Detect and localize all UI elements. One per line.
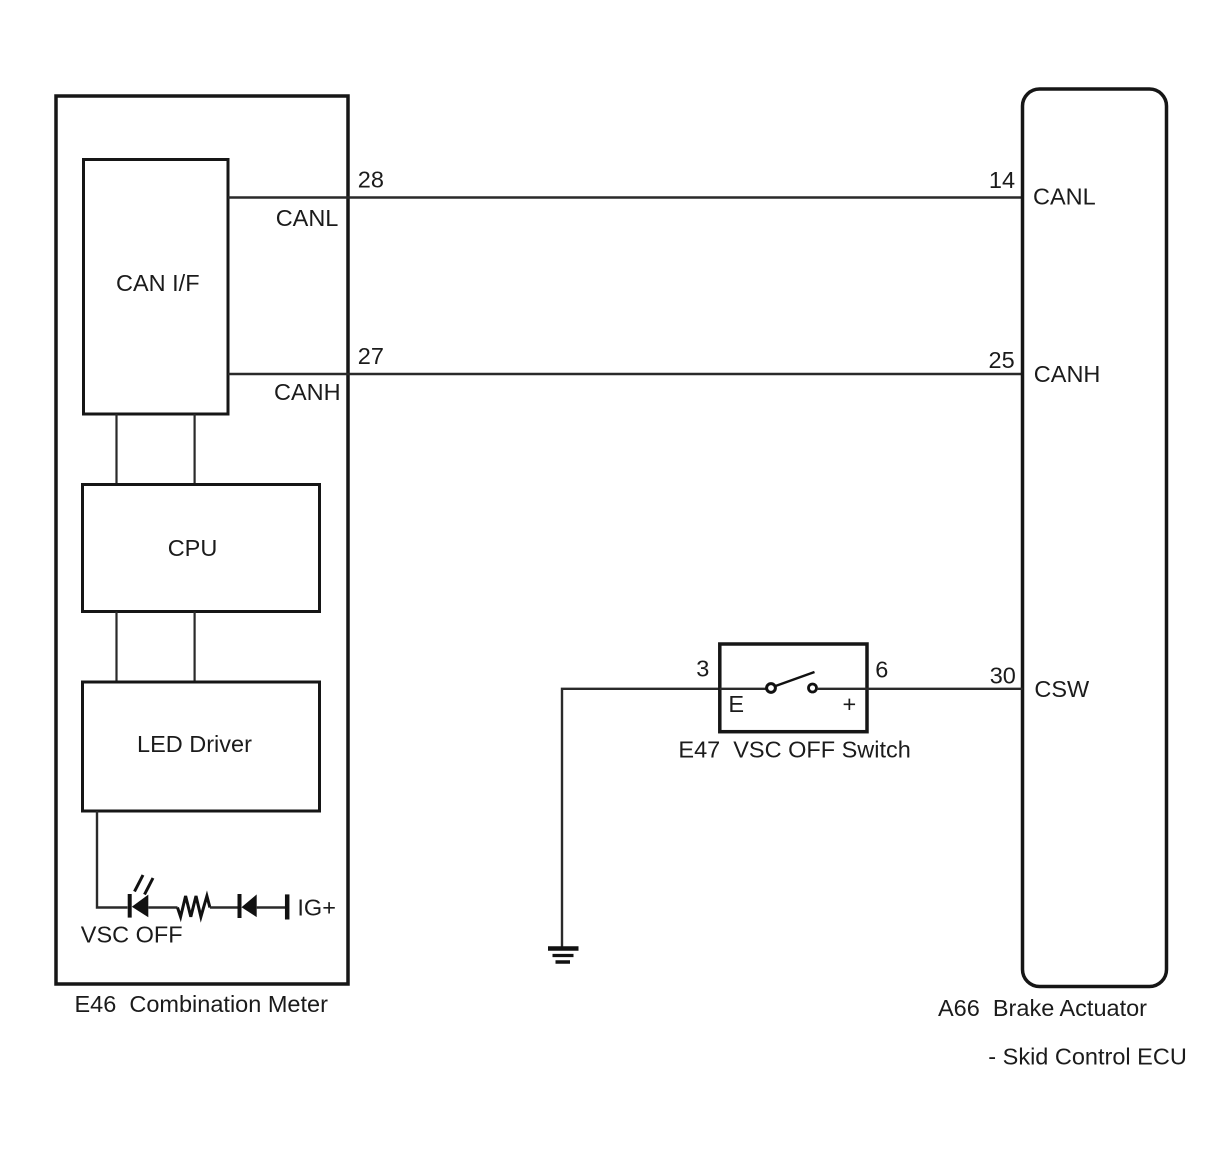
svg-text:14: 14 — [989, 167, 1015, 193]
svg-text:CAN I/F: CAN I/F — [116, 270, 200, 296]
wire LED to resistor — [148, 906, 177, 908]
svg-text:CANH: CANH — [1034, 361, 1101, 387]
switch SW1 contacts — [767, 672, 817, 692]
svg-text:A66 Brake Actuator: A66 Brake Actuator — [938, 995, 1147, 1021]
svg-text:E47 VSC OFF Switch: E47 VSC OFF Switch — [678, 737, 910, 763]
svg-text:CPU: CPU — [168, 535, 218, 561]
terminal IG+ — [287, 894, 336, 920]
block E46 Combination Meter outline — [56, 96, 348, 984]
wire ground to switch — [562, 689, 720, 947]
wire resistor to diode — [210, 906, 238, 908]
wire 27 CANH net — [228, 373, 1023, 375]
svg-text:IG+: IG+ — [297, 895, 336, 921]
svg-text:CANL: CANL — [276, 205, 339, 231]
block CAN I/F — [84, 160, 229, 415]
wire switch box left stub — [720, 688, 767, 690]
svg-text:27: 27 — [358, 343, 384, 369]
svg-text:E46 Combination Meter: E46 Combination Meter — [75, 991, 329, 1017]
wire 28 CANL net — [228, 196, 1023, 198]
diode D2 — [240, 894, 257, 918]
svg-text:28: 28 — [358, 167, 384, 193]
wire 30 CSW net — [817, 688, 1023, 690]
svg-text:- Skid Control ECU: - Skid Control ECU — [988, 1044, 1187, 1070]
svg-text:+: + — [843, 691, 857, 717]
LED D1 VSC OFF indicator — [130, 875, 153, 918]
svg-text:VSC OFF: VSC OFF — [81, 922, 183, 948]
wire LED Driver to LED row — [97, 811, 128, 908]
svg-text:E: E — [728, 691, 744, 717]
svg-text:25: 25 — [989, 347, 1015, 373]
ground — [548, 949, 579, 963]
wire CAN I/F to CPU right — [194, 414, 196, 484]
svg-text:CSW: CSW — [1034, 676, 1090, 702]
svg-text:3: 3 — [696, 656, 709, 682]
switch E47 box — [720, 644, 867, 732]
wire CPU to LED Driver left — [115, 612, 117, 683]
block A66 Brake Actuator outline — [1023, 89, 1167, 987]
svg-text:CANL: CANL — [1033, 184, 1096, 210]
svg-text:CANH: CANH — [274, 379, 341, 405]
svg-text:LED Driver: LED Driver — [137, 731, 252, 757]
block LED Driver — [83, 682, 320, 811]
resistor R1 — [178, 896, 210, 917]
wire CAN I/F to CPU left — [115, 414, 117, 484]
svg-text:30: 30 — [990, 662, 1016, 688]
svg-text:6: 6 — [875, 657, 888, 683]
wire CPU to LED Driver right — [194, 612, 196, 683]
wire diode to IG+ terminal — [257, 906, 285, 908]
block CPU — [83, 485, 320, 612]
